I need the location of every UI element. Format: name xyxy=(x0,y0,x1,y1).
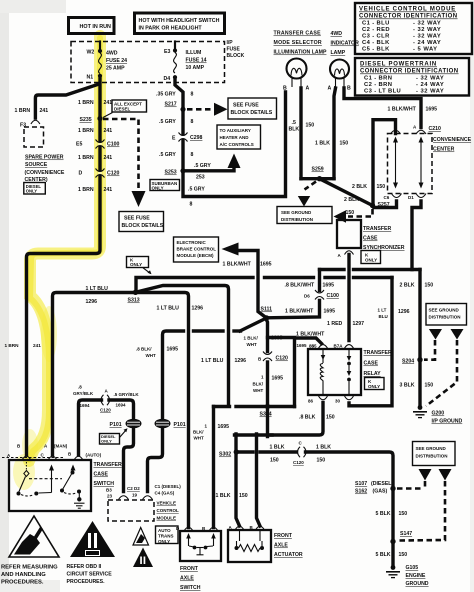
svg-text:- 32 WAY: - 32 WAY xyxy=(413,27,441,33)
svg-text:SEE GROUND: SEE GROUND xyxy=(429,308,460,313)
header HOT IN RUN xyxy=(69,18,115,34)
svg-text:1 LT BLU: 1 LT BLU xyxy=(201,358,224,364)
connector C120 D xyxy=(79,169,120,178)
wire C120 B to S314 xyxy=(266,362,269,407)
splice S204 xyxy=(417,357,422,362)
splice S147 xyxy=(390,539,395,544)
svg-text:TO AUXILIARY: TO AUXILIARY xyxy=(220,128,251,133)
wire 1695 down to VCM pin xyxy=(148,428,163,492)
vehicle control module dashed box xyxy=(108,500,179,521)
svg-text:HOT IN RUN: HOT IN RUN xyxy=(80,24,112,30)
svg-text:C100: C100 xyxy=(327,293,340,299)
suburban only box xyxy=(150,180,180,191)
label 4WD FUSE 24 25 AMP xyxy=(106,51,127,72)
svg-text:BLOCK DETAILS: BLOCK DETAILS xyxy=(231,110,273,116)
svg-text:1 BRN: 1 BRN xyxy=(78,100,94,106)
svg-text:.5 GRY: .5 GRY xyxy=(194,163,211,169)
svg-text:S259: S259 xyxy=(312,167,324,173)
svg-text:CONTROL: CONTROL xyxy=(157,508,179,513)
inline connector P101 (left) xyxy=(110,419,141,428)
svg-text:FRONT: FRONT xyxy=(274,533,293,539)
svg-text:REFER MEASURING: REFER MEASURING xyxy=(1,565,58,571)
svg-text:I/P GROUND: I/P GROUND xyxy=(432,419,463,425)
svg-text:30: 30 xyxy=(335,399,341,404)
label I/P FUSE BLOCK xyxy=(227,40,245,59)
svg-text:REFER OBD II: REFER OBD II xyxy=(67,564,102,570)
svg-text:CONNECTOR IDENTIFICATION: CONNECTOR IDENTIFICATION xyxy=(360,69,459,75)
gry chain xyxy=(150,79,286,208)
svg-text:TRANSFER: TRANSFER xyxy=(364,350,392,356)
svg-text:C3 - LT BLU: C3 - LT BLU xyxy=(364,89,401,95)
svg-text:AND HANDLING: AND HANDLING xyxy=(1,572,46,578)
lamp 4WD indicator xyxy=(328,60,352,92)
diesel powertrain connector id box xyxy=(355,58,469,96)
svg-text:- 24 WAY: - 24 WAY xyxy=(416,82,444,88)
svg-text:241: 241 xyxy=(40,108,49,114)
svg-text:HOT WITH HEADLIGHT SWITCH: HOT WITH HEADLIGHT SWITCH xyxy=(139,18,220,24)
svg-text:D1: D1 xyxy=(408,195,414,200)
pin 30 xyxy=(345,396,354,400)
wire S314 down and over xyxy=(235,407,273,437)
wire D6 to S111 xyxy=(268,301,320,318)
svg-text:19: 19 xyxy=(132,493,138,498)
svg-text:S314: S314 xyxy=(260,412,272,418)
svg-text:WHT: WHT xyxy=(194,436,204,441)
wire 1695 D6 drop xyxy=(318,270,321,291)
svg-text:ACTUATOR: ACTUATOR xyxy=(274,552,303,558)
svg-text:C120: C120 xyxy=(107,171,120,177)
svg-text:ELECTRONIC: ELECTRONIC xyxy=(177,240,207,245)
svg-text:1695: 1695 xyxy=(324,309,336,315)
svg-text:VEHICLE: VEHICLE xyxy=(157,501,177,506)
svg-text:1 LT BLU: 1 LT BLU xyxy=(86,286,109,292)
diesel only box with pointer xyxy=(100,428,128,444)
svg-text:.8 BLK/: .8 BLK/ xyxy=(136,347,152,352)
svg-text:GROUND: GROUND xyxy=(406,581,429,587)
svg-text:AXLE: AXLE xyxy=(180,576,194,582)
svg-text:P101: P101 xyxy=(174,422,186,428)
svg-text:241: 241 xyxy=(104,187,113,193)
svg-text:D: D xyxy=(79,171,83,177)
svg-text:1 LT BLU: 1 LT BLU xyxy=(157,306,180,312)
svg-text:- 32 WAY: - 32 WAY xyxy=(413,34,441,40)
wire C120 to G105 corner xyxy=(306,452,394,566)
svg-text:S147: S147 xyxy=(400,531,412,537)
svg-text:CENTER: CENTER xyxy=(433,147,455,153)
wire branch to relay 85 xyxy=(268,336,295,339)
svg-text:IN PARK OR HEADLIGHT: IN PARK OR HEADLIGHT xyxy=(139,26,203,32)
dashed wire from S217 xyxy=(187,108,214,111)
arrow to see fuse block details xyxy=(214,103,228,116)
svg-text:1 BLK/: 1 BLK/ xyxy=(244,336,259,341)
pin 87A xyxy=(345,345,354,349)
svg-text:N1: N1 xyxy=(87,75,94,81)
K only box (synchronizer) xyxy=(361,251,381,264)
svg-text:86: 86 xyxy=(308,399,314,404)
front axle switch box xyxy=(180,531,221,591)
svg-text:.8 BLK/WHT: .8 BLK/WHT xyxy=(285,283,316,289)
svg-text:8: 8 xyxy=(191,152,194,158)
wire actuator B drop xyxy=(257,434,261,526)
wire .35 GRY 8 xyxy=(175,79,286,197)
pin A synchronizer xyxy=(345,251,354,255)
svg-text:C120: C120 xyxy=(293,460,304,465)
svg-text:C2 D2: C2 D2 xyxy=(127,486,140,491)
arrow to ground dist (right) xyxy=(334,210,347,222)
svg-text:PROCEDURES.: PROCEDURES. xyxy=(67,579,106,585)
svg-text:GRY/BLK: GRY/BLK xyxy=(73,391,94,396)
svg-text:(AUTO): (AUTO) xyxy=(86,453,102,458)
svg-text:B: B xyxy=(283,86,287,92)
dashed wire arrow to S204 xyxy=(424,340,435,360)
svg-text:ONLY: ONLY xyxy=(368,384,380,389)
svg-text:150: 150 xyxy=(399,511,408,517)
svg-text:1 BLK: 1 BLK xyxy=(270,445,285,451)
svg-text:- 5 WAY: - 5 WAY xyxy=(413,47,438,53)
svg-text:150: 150 xyxy=(306,123,315,129)
see fuse block details box (right) xyxy=(228,98,277,119)
see ground distribution box (left) xyxy=(277,207,332,224)
K only box (pointer to 1296 wire) xyxy=(127,257,152,275)
svg-text:A: A xyxy=(328,86,332,92)
svg-text:FRONT: FRONT xyxy=(180,566,199,572)
svg-text:AXLE: AXLE xyxy=(274,543,288,549)
svg-text:ENGINE: ENGINE xyxy=(406,573,426,579)
wire S111 down to S314 xyxy=(267,320,268,352)
wire .5 BLK 150 (mode lamp A) xyxy=(299,88,302,179)
svg-text:C210: C210 xyxy=(429,126,442,132)
svg-text:1 BLK: 1 BLK xyxy=(316,445,331,451)
svg-text:1 BLK/WHT: 1 BLK/WHT xyxy=(296,332,325,338)
svg-text:150: 150 xyxy=(317,458,326,464)
middle xyxy=(53,237,410,528)
svg-text:2 BLK: 2 BLK xyxy=(352,184,367,190)
front axle switch internals xyxy=(186,533,216,555)
see ground distribution box (top right) xyxy=(426,304,467,326)
wire 1296 line B riser from S313 xyxy=(136,278,253,293)
svg-text:1695: 1695 xyxy=(260,262,272,268)
svg-text:25 AMP: 25 AMP xyxy=(106,66,125,72)
VCM pins xyxy=(119,496,129,500)
svg-text:P101: P101 xyxy=(110,422,122,428)
svg-text:G105: G105 xyxy=(406,565,419,571)
svg-text:E5: E5 xyxy=(76,142,82,148)
svg-text:ONLY: ONLY xyxy=(26,189,37,194)
wire S302 to C120 xyxy=(239,450,253,453)
svg-text:C100: C100 xyxy=(107,142,120,148)
svg-text:BLK/: BLK/ xyxy=(193,430,204,435)
svg-text:.5: .5 xyxy=(292,120,296,126)
svg-text:CASE: CASE xyxy=(94,472,109,478)
svg-text:150: 150 xyxy=(340,141,349,147)
connector C100 E5 xyxy=(76,140,120,149)
svg-text:241: 241 xyxy=(33,343,41,348)
svg-text:SEE FUSE: SEE FUSE xyxy=(233,103,259,109)
wire axle switch B drop xyxy=(212,407,215,528)
svg-text:(MAN): (MAN) xyxy=(54,443,68,448)
svg-text:1296: 1296 xyxy=(192,306,204,312)
svg-text:DIESEL POWERTRAIN: DIESEL POWERTRAIN xyxy=(360,62,437,68)
svg-text:I/P: I/P xyxy=(227,40,234,46)
svg-text:1 BLK/WHT: 1 BLK/WHT xyxy=(285,309,314,315)
relay coil xyxy=(320,349,325,395)
connector C120 A (horizontal) xyxy=(100,389,111,413)
svg-text:3 BLK: 3 BLK xyxy=(400,383,415,389)
svg-text:10 AMP: 10 AMP xyxy=(186,65,205,71)
svg-text:1695: 1695 xyxy=(218,424,230,430)
svg-text:.8 BLK: .8 BLK xyxy=(299,415,316,421)
svg-text:150: 150 xyxy=(239,493,248,499)
svg-text:C120: C120 xyxy=(100,408,111,413)
svg-text:C4 (GAS): C4 (GAS) xyxy=(155,491,175,496)
wire 1 BLK/WHT 1695 (4wd lamp B to C210 A) xyxy=(344,88,421,128)
wire branch to F3 xyxy=(35,84,99,118)
svg-text:1 BLK/WHT: 1 BLK/WHT xyxy=(388,107,417,113)
K only box (relay) xyxy=(365,378,385,390)
wire .5 GRY 253 branch xyxy=(185,167,234,171)
svg-text:S302: S302 xyxy=(219,452,231,458)
connector C120 B xyxy=(258,352,288,362)
svg-text:S162: S162 xyxy=(355,489,367,495)
svg-text:S235: S235 xyxy=(80,117,92,123)
svg-text:CASE: CASE xyxy=(363,236,378,242)
svg-text:VEHICLE CONTROL MODUE: VEHICLE CONTROL MODUE xyxy=(359,7,456,13)
svg-text:253: 253 xyxy=(196,175,205,181)
lamps xyxy=(274,31,472,224)
terminal N1 xyxy=(98,74,102,78)
label 4WD indicator lamp xyxy=(331,31,360,56)
I/P fuse block dashed box xyxy=(71,42,225,83)
svg-text:4WD: 4WD xyxy=(106,51,118,57)
svg-text:1694: 1694 xyxy=(80,403,91,408)
svg-text:C5 - BLK: C5 - BLK xyxy=(362,47,390,53)
small ESD triangle xyxy=(133,528,149,546)
svg-text:S313: S313 xyxy=(128,298,140,304)
svg-text:150: 150 xyxy=(346,210,355,216)
svg-text:S217: S217 xyxy=(165,102,177,108)
svg-text:.8: .8 xyxy=(78,385,82,390)
wire C6 to S257 xyxy=(374,201,397,208)
svg-text:FUSE: FUSE xyxy=(227,47,241,53)
svg-text:BRAKE CONTROL: BRAKE CONTROL xyxy=(177,247,217,252)
convenience center C210 dashed box xyxy=(388,125,472,194)
actuator resistor xyxy=(235,531,265,552)
svg-text:FUSE 14: FUSE 14 xyxy=(186,58,207,64)
wire S111 diagonal to 1695 horizontal xyxy=(240,318,267,331)
transfer case synchronizer box xyxy=(337,220,405,251)
splice S107/S162 xyxy=(390,486,395,491)
small OBD II triangle xyxy=(133,548,153,568)
svg-text:PROCEDURES.: PROCEDURES. xyxy=(1,580,44,586)
terminal W2 xyxy=(98,49,102,53)
wire 2 BLK 150 (C210 left top to S257) xyxy=(373,120,396,206)
wire S313 horizontal 1 LT BLU xyxy=(53,293,189,528)
see ground distribution box (bottom right) xyxy=(413,442,456,466)
svg-text:C6: C6 xyxy=(384,195,390,200)
dashed wire S259 to ground dist xyxy=(305,182,317,190)
svg-text:B: B xyxy=(347,86,351,92)
splice S217 xyxy=(180,107,185,112)
arrow to ground dist (top) xyxy=(298,196,310,207)
svg-text:.35 GRY: .35 GRY xyxy=(156,92,176,98)
label refer measuring xyxy=(1,565,58,586)
svg-text:BLOCK DETAILS: BLOCK DETAILS xyxy=(122,223,164,229)
svg-text:WHT: WHT xyxy=(247,342,257,347)
svg-text:SPARE POWER: SPARE POWER xyxy=(25,155,64,161)
connector F3 xyxy=(31,120,40,124)
svg-text:1695: 1695 xyxy=(167,347,179,353)
wire 1 BLK 150 (4wd lamp A) xyxy=(334,88,336,179)
fuse 24 element xyxy=(99,53,102,74)
wire 85 riser xyxy=(295,338,322,407)
wire E3 stub xyxy=(174,42,176,49)
svg-text:ILLUM: ILLUM xyxy=(186,50,202,56)
svg-text:LAMP: LAMP xyxy=(331,50,346,56)
svg-text:.5 GRY/BLK: .5 GRY/BLK xyxy=(114,392,140,397)
svg-text:S107: S107 xyxy=(355,481,367,487)
wire W2 stub xyxy=(99,42,101,50)
svg-text:8: 8 xyxy=(191,92,194,98)
splice S235 xyxy=(97,116,102,121)
svg-text:.5 GRY: .5 GRY xyxy=(188,187,205,193)
svg-text:E3: E3 xyxy=(164,49,170,55)
svg-text:DISTRIBUTION: DISTRIBUTION xyxy=(416,454,448,459)
right side xyxy=(320,201,467,425)
svg-text:5 BLK: 5 BLK xyxy=(376,511,391,517)
pin 86 xyxy=(319,396,328,400)
svg-text:SOURCE: SOURCE xyxy=(25,162,48,168)
wire 1 RED 1297 synchronizer to relay 87A xyxy=(347,255,350,341)
ground G105 xyxy=(386,565,429,587)
switch internals xyxy=(17,462,85,508)
wire 2 BLK diagonal S259 to S257 xyxy=(320,179,373,206)
splice S302 xyxy=(234,449,239,454)
dashed wire right arrow to G200 xyxy=(426,340,457,406)
wire S313 diag branch to x228 xyxy=(136,286,229,407)
vehicle control module connector id box xyxy=(355,3,472,54)
svg-text:S111: S111 xyxy=(261,307,273,313)
svg-text:1 BLK/WHT: 1 BLK/WHT xyxy=(223,262,252,268)
svg-text:2 BLK: 2 BLK xyxy=(400,283,415,289)
terminal D4 xyxy=(173,75,177,79)
svg-text:BLU: BLU xyxy=(379,314,388,319)
svg-text:B3: B3 xyxy=(106,488,112,493)
relay contacts xyxy=(347,349,352,395)
svg-text:1 BLK: 1 BLK xyxy=(216,493,231,499)
transfer case switch box xyxy=(9,460,122,511)
connector C298 E xyxy=(172,133,203,142)
svg-text:MODE SELECTOR: MODE SELECTOR xyxy=(274,40,322,46)
see fuse block details box (left) xyxy=(119,212,164,232)
big OBD II triangle xyxy=(70,521,115,557)
fuse 14 element xyxy=(174,53,177,74)
svg-text:CONVENIENCE: CONVENIENCE xyxy=(433,137,472,143)
arrow to see fuse block details xyxy=(132,191,146,207)
svg-text:C1 - BLU: C1 - BLU xyxy=(362,21,390,27)
svg-text:CIRCUIT SERVICE: CIRCUIT SERVICE xyxy=(67,572,113,578)
svg-text:C120: C120 xyxy=(276,356,289,362)
svg-text:TRANSFER: TRANSFER xyxy=(363,226,391,232)
svg-text:TRANSFER: TRANSFER xyxy=(94,462,122,468)
svg-text:INDICATOR: INDICATOR xyxy=(331,41,360,47)
svg-text:1 BLK: 1 BLK xyxy=(315,141,330,147)
svg-text:.5 GRY: .5 GRY xyxy=(159,119,176,125)
label refer obd ii xyxy=(67,564,113,585)
svg-text:- 32 WAY: - 32 WAY xyxy=(413,21,441,27)
svg-text:8: 8 xyxy=(190,202,193,208)
svg-text:(GAS): (GAS) xyxy=(373,489,388,495)
all except diesel box xyxy=(103,100,147,118)
svg-text:ILLUMINATION LAMP: ILLUMINATION LAMP xyxy=(274,50,327,56)
svg-text:ONLY: ONLY xyxy=(152,186,164,191)
svg-text:241: 241 xyxy=(104,128,113,134)
wire 86 down .8 BLK 150 xyxy=(271,403,323,436)
ground dist arrow left xyxy=(429,329,442,340)
svg-text:150: 150 xyxy=(425,283,434,289)
splice S314 xyxy=(214,405,230,408)
wire 1695 horizontal line A xyxy=(320,268,345,271)
svg-text:- 32 WAY: - 32 WAY xyxy=(416,89,444,95)
wire 1695 horizontal left segments xyxy=(234,329,241,332)
svg-text:1 BRN: 1 BRN xyxy=(15,108,31,114)
ground dist arrow right xyxy=(451,329,464,340)
svg-text:1 RED: 1 RED xyxy=(327,321,343,327)
svg-text:C3 - CLR: C3 - CLR xyxy=(362,34,390,40)
svg-text:8: 8 xyxy=(191,119,194,125)
svg-text:MODULE: MODULE xyxy=(157,516,177,521)
svg-text:1 BRN: 1 BRN xyxy=(78,155,94,161)
svg-text:CASE: CASE xyxy=(364,361,379,367)
arrow to aux heater xyxy=(228,154,241,169)
svg-text:C298: C298 xyxy=(190,135,203,141)
svg-text:FUSE 24: FUSE 24 xyxy=(106,58,127,64)
svg-text:SEE GROUND: SEE GROUND xyxy=(416,446,447,451)
svg-text:C1 - BRN: C1 - BRN xyxy=(364,76,392,82)
transfer case relay box xyxy=(308,349,392,395)
pin A (switch) xyxy=(22,456,31,460)
svg-text:DISTRIBUTION: DISTRIBUTION xyxy=(281,217,313,222)
svg-text:WHT: WHT xyxy=(146,353,156,358)
wire line B segments xyxy=(265,276,314,279)
pin 85 xyxy=(319,345,328,349)
splice S259 xyxy=(301,177,334,180)
svg-text:E: E xyxy=(172,136,176,142)
big ESD triangle xyxy=(9,516,59,557)
svg-text:MODULE (EBCM): MODULE (EBCM) xyxy=(177,253,214,258)
terminal E3 xyxy=(173,48,177,52)
label ILLUM FUSE 14 10 AMP xyxy=(186,50,207,71)
svg-text:1 LT: 1 LT xyxy=(378,308,387,313)
svg-text:BLK/: BLK/ xyxy=(253,382,264,387)
svg-text:TRANS: TRANS xyxy=(158,534,174,539)
svg-text:CONNECTOR IDENTIFICATION: CONNECTOR IDENTIFICATION xyxy=(359,14,458,20)
svg-text:150: 150 xyxy=(425,383,434,389)
svg-text:85: 85 xyxy=(309,344,315,349)
svg-text:A/C CONTROLS: A/C CONTROLS xyxy=(220,142,254,147)
svg-text:C4 - BLK: C4 - BLK xyxy=(362,40,390,46)
header HOT WITH HEADLIGHT SWITCH xyxy=(135,13,225,34)
svg-text:S204: S204 xyxy=(402,358,414,364)
arrow into EBCM xyxy=(222,243,239,256)
wire .8 GRY/BLK from switch pin B through C120 xyxy=(79,400,102,455)
svg-text:- 24 WAY: - 24 WAY xyxy=(413,40,441,46)
svg-text:ONLY: ONLY xyxy=(130,262,142,267)
svg-text:HEATER AND: HEATER AND xyxy=(220,135,250,140)
svg-text:1695: 1695 xyxy=(426,107,438,113)
svg-text:.5 GRY: .5 GRY xyxy=(159,152,176,158)
svg-text:S253: S253 xyxy=(165,170,177,176)
splice S313 xyxy=(133,290,138,295)
